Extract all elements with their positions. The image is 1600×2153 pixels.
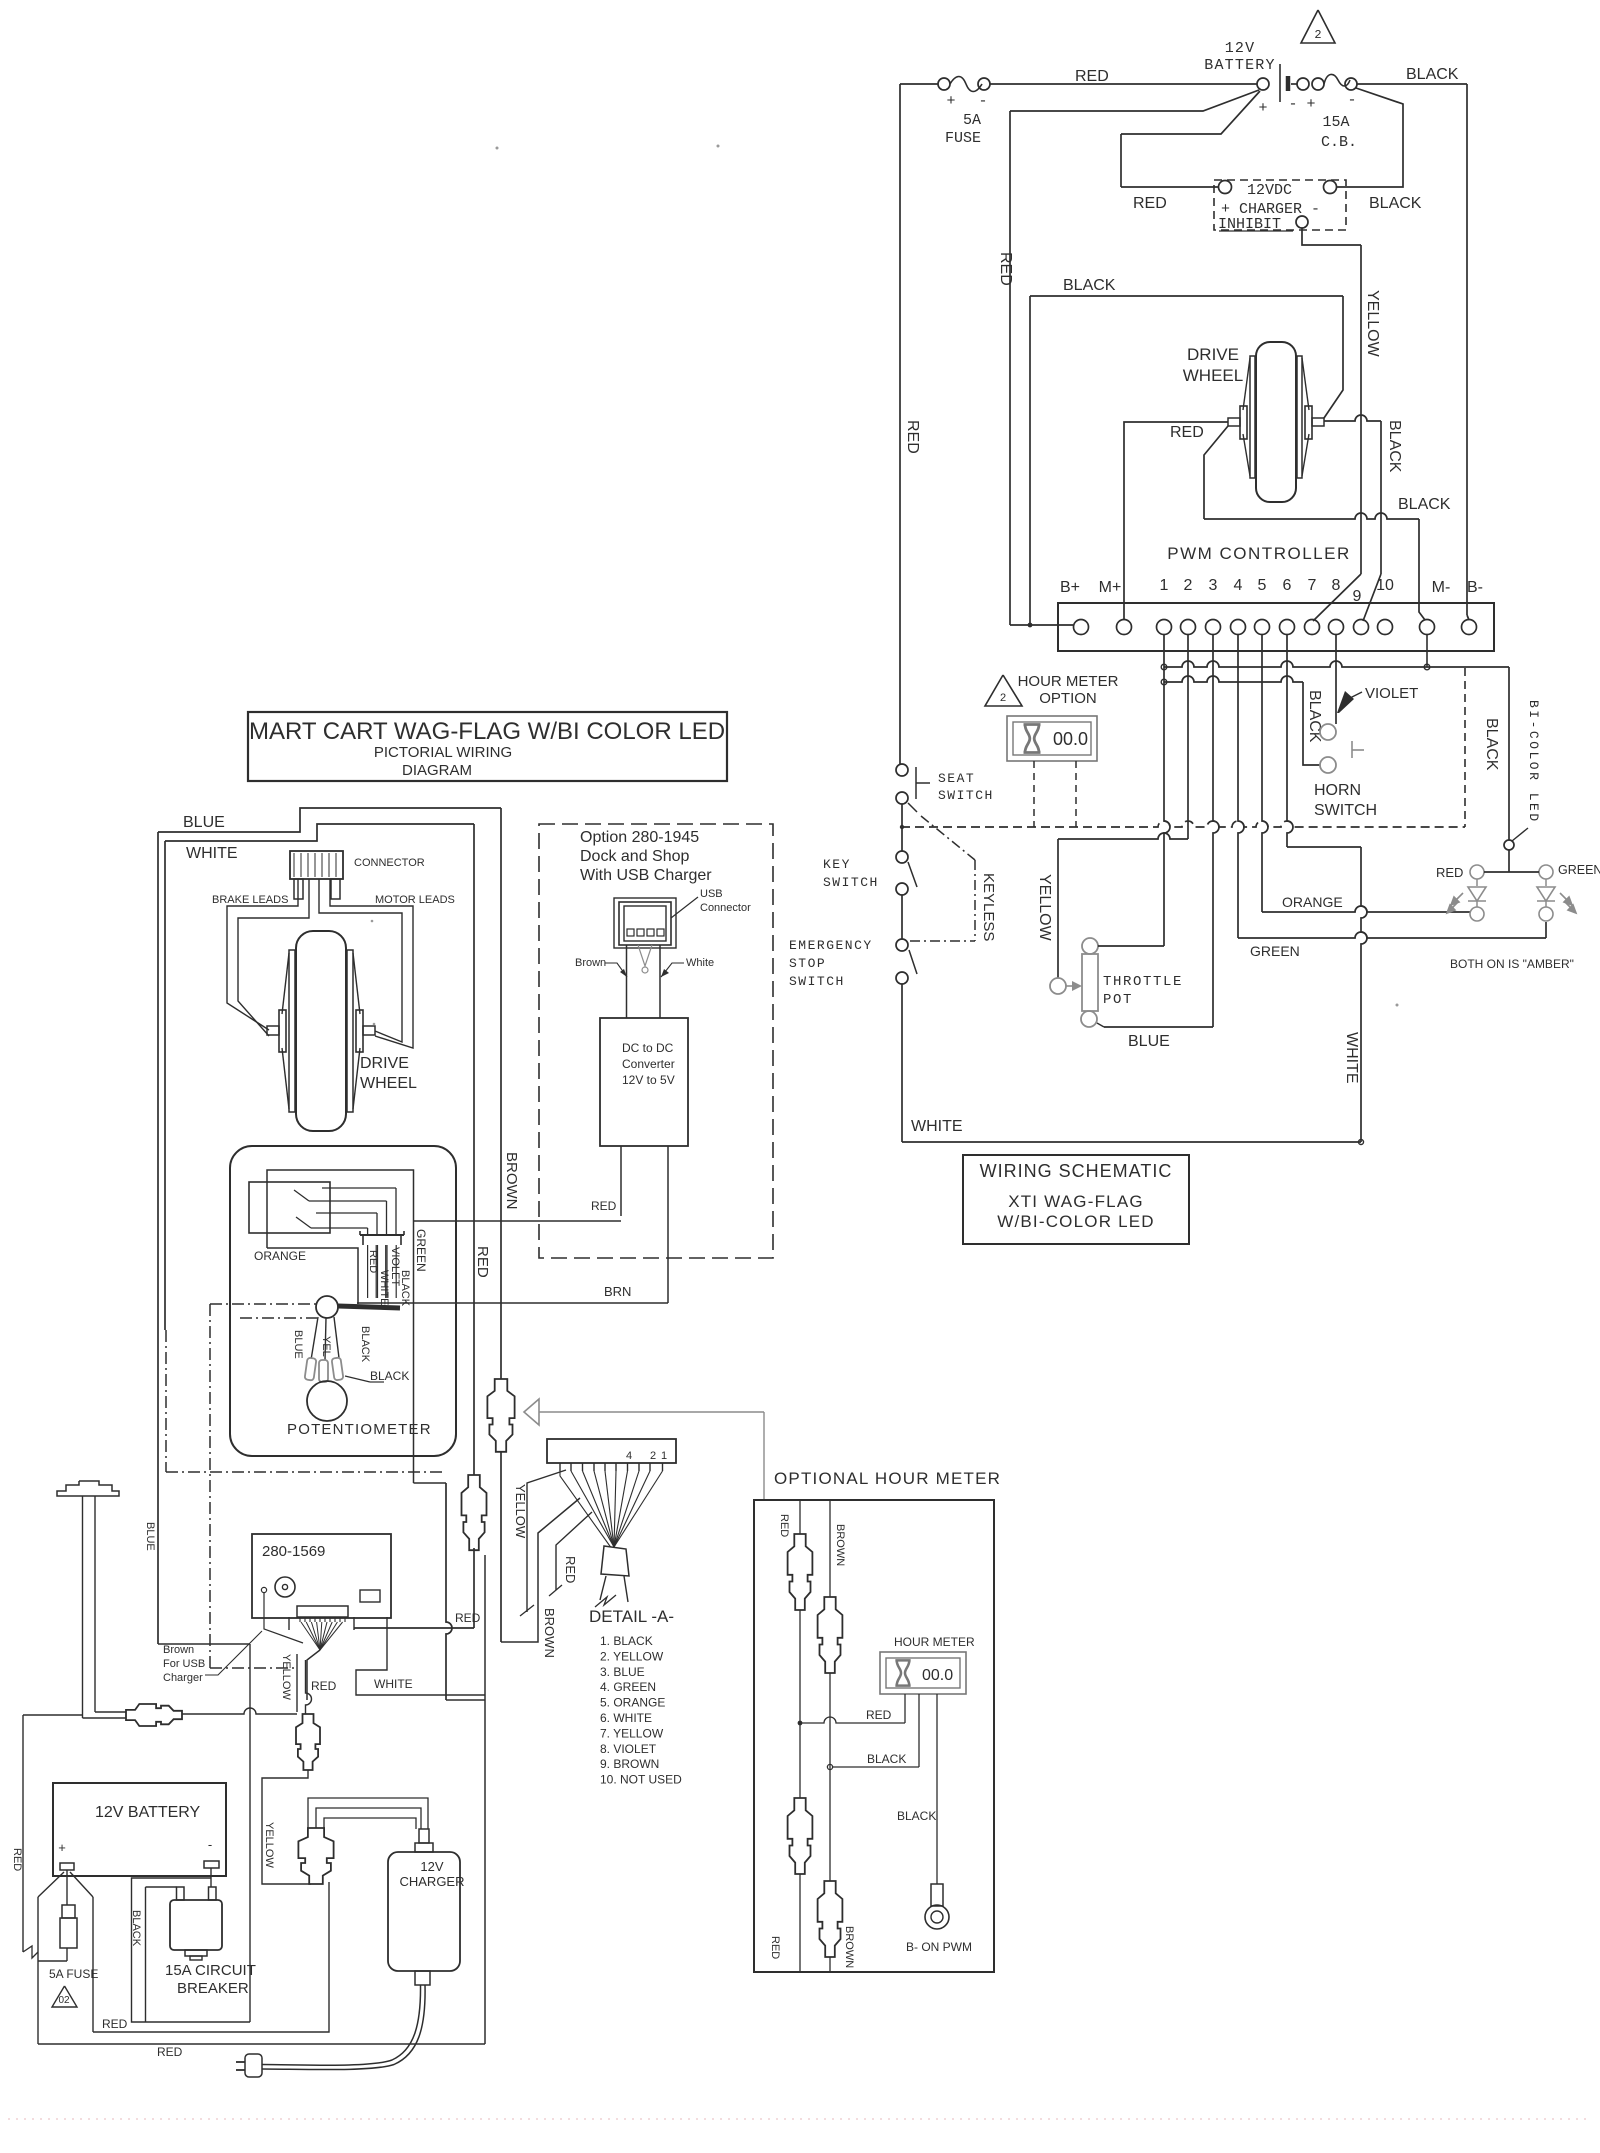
wire BLACK to LED pair — [1508, 850, 1510, 872]
charger + terminal circle — [1219, 181, 1232, 194]
PWM terminal B- — [1462, 620, 1477, 635]
wire BLUE left vertical — [157, 832, 159, 1644]
leader USB connector — [671, 897, 698, 918]
wire RED M+ to left axle — [1124, 422, 1228, 620]
svg-text:DC to DC: DC to DC — [622, 1041, 674, 1055]
wire BLUE pot lead — [311, 1317, 318, 1360]
svg-text:2: 2 — [1000, 693, 1007, 705]
wire jog to B- terminal — [1467, 615, 1469, 620]
box 12V CHARGER — [388, 1852, 460, 1971]
wire BLUE pot bottom to terminal 3 — [1104, 1026, 1213, 1028]
svg-text:HOUR METER: HOUR METER — [894, 1635, 975, 1649]
wire left border down — [22, 1715, 24, 1952]
svg-text:RED: RED — [474, 1246, 491, 1278]
junction M- bus — [1424, 664, 1430, 670]
svg-text:6. WHITE: 6. WHITE — [600, 1711, 652, 1725]
battery - terminal — [204, 1861, 219, 1868]
svg-text:SWITCH: SWITCH — [1314, 802, 1377, 819]
svg-text:BLACK: BLACK — [1483, 718, 1500, 771]
wire YELLOW wiper to terminal 2 — [1058, 833, 1188, 839]
wire BLACK meter lead — [918, 1694, 920, 1767]
key switch lever — [908, 862, 917, 887]
breaker right post — [209, 1887, 217, 1900]
svg-text:BLACK: BLACK — [1386, 420, 1403, 473]
svg-text:CONNECTOR: CONNECTOR — [354, 857, 425, 869]
svg-text:7. YELLOW: 7. YELLOW — [600, 1726, 664, 1740]
seat switch lever — [908, 803, 917, 812]
box control board 280-1569 — [252, 1534, 391, 1618]
svg-text:BLACK: BLACK — [1369, 195, 1422, 212]
board fan wire — [320, 1622, 327, 1650]
PWM terminal 8 — [1329, 620, 1344, 635]
drive wheel M1 tire — [1256, 342, 1296, 502]
pictorial wheel left cone upper — [282, 953, 289, 1014]
wire horn to left border — [23, 1714, 83, 1716]
svg-text:BRN: BRN — [604, 1284, 631, 1299]
wire charger feed inner — [324, 1818, 416, 1829]
dashed keyless link — [921, 816, 975, 860]
wheel right cone lower — [1302, 434, 1309, 476]
ring terminal barrel — [931, 1884, 943, 1906]
svg-text:XTI WAG-FLAG: XTI WAG-FLAG — [1008, 1192, 1144, 1211]
svg-text:WHEEL: WHEEL — [1183, 366, 1243, 385]
svg-text:+: + — [946, 93, 955, 110]
pot harness crimp header — [360, 1234, 404, 1236]
AC plug body — [245, 2054, 262, 2077]
wire charger feed mid — [316, 1808, 421, 1829]
wire RED battery+ tap 1 — [1010, 90, 1259, 111]
pot harness wire pair — [386, 1245, 388, 1298]
board fan wire — [320, 1622, 343, 1650]
wire bundle down — [307, 1650, 320, 1700]
svg-text:WHEEL: WHEEL — [360, 1075, 417, 1092]
svg-text:BLACK: BLACK — [867, 1752, 906, 1766]
detail-A connector housing — [547, 1439, 676, 1463]
svg-text:2. YELLOW: 2. YELLOW — [600, 1649, 664, 1663]
wire BLACK bus2 to horn — [1164, 676, 1303, 682]
svg-text:BLACK: BLACK — [1063, 277, 1116, 294]
detail-A pin — [662, 1463, 664, 1471]
wire BLACK down to M- — [1419, 519, 1425, 620]
svg-text:2: 2 — [650, 1450, 656, 1462]
detail-A fan wire — [614, 1471, 650, 1547]
svg-text:RED: RED — [455, 1611, 481, 1625]
wire ORANGE run to red LED — [1262, 906, 1470, 912]
USB connector inner — [624, 906, 666, 941]
svg-text:BLUE: BLUE — [1128, 1033, 1170, 1050]
svg-text:HORN: HORN — [1314, 782, 1361, 799]
wire BLACK tap to meter — [833, 1766, 919, 1768]
throttle pot top terminal — [1082, 938, 1098, 954]
wire BLACK meter ground lead — [936, 1694, 938, 1884]
horn switch S4 bottom contact — [1320, 757, 1336, 773]
wire battery+ diag right — [70, 1872, 93, 1897]
leader BI-COLOR LED — [1512, 828, 1528, 841]
wheel right axle pin — [1312, 418, 1324, 426]
PWM terminal 10 — [1378, 620, 1393, 635]
svg-text:RED: RED — [367, 1250, 379, 1273]
breaker left post — [177, 1887, 185, 1900]
board speaker outer — [275, 1577, 295, 1597]
svg-text:00.0: 00.0 — [922, 1667, 953, 1684]
PWM terminal 9 — [1354, 620, 1369, 635]
box optional hour meter panel — [754, 1500, 994, 1972]
wire battery+ to fuse — [66, 1870, 68, 1905]
drive wheel pictorial tire — [296, 931, 346, 1131]
svg-text:KEY: KEY — [823, 857, 851, 872]
box pictorial title — [248, 712, 727, 781]
pot harness wire pair — [367, 1245, 369, 1298]
red LED D1 cathode terminal — [1470, 907, 1484, 921]
wire RED detail stub — [556, 1512, 592, 1590]
junction dash option — [900, 825, 904, 829]
wire WHITE jog — [1287, 846, 1361, 848]
wire RED left border down to seat switch — [899, 84, 901, 764]
wire RED to charger terminal — [1121, 186, 1218, 188]
inline connector red wire — [462, 1475, 487, 1550]
svg-text:BREAKER: BREAKER — [177, 1980, 249, 1997]
wire RED tap to meter — [800, 1717, 905, 1723]
detail-A fan wire — [571, 1471, 614, 1547]
svg-text:8. VIOLET: 8. VIOLET — [600, 1742, 657, 1756]
wire RED battery+ tap 2 — [1121, 91, 1260, 134]
ring terminal eye outer — [925, 1905, 949, 1929]
stray scan dot 1 — [496, 147, 499, 150]
wire RED bottom run — [38, 2043, 485, 2045]
detail-A pin — [604, 1463, 606, 1471]
detail-A fan wire — [614, 1471, 616, 1547]
note triangle 02 — [52, 1986, 77, 2007]
dashed hour meter lead 2 — [1075, 761, 1077, 827]
seat switch plunger — [915, 767, 917, 799]
green LED D2 anode terminal — [1539, 865, 1553, 879]
key switch S2 bottom contact — [896, 883, 908, 895]
svg-text:HOUR METER: HOUR METER — [1018, 673, 1119, 690]
wire GREEN run to LED — [1238, 932, 1546, 938]
svg-text:OPTION: OPTION — [1039, 690, 1097, 707]
PWM terminal 1 — [1157, 620, 1172, 635]
wire breaker left down — [145, 1887, 147, 2022]
wire WHITE long vertical — [1361, 847, 1367, 1142]
key switch S2 top contact — [896, 851, 908, 863]
board fan wire — [320, 1622, 332, 1650]
underline INHIBIT — [1219, 230, 1293, 232]
svg-text:C.B.: C.B. — [1321, 134, 1357, 151]
svg-text:BLACK: BLACK — [399, 1270, 411, 1307]
detail-A pin — [627, 1463, 629, 1471]
svg-text:12V BATTERY: 12V BATTERY — [95, 1804, 201, 1821]
svg-text:PWM CONTROLLER: PWM CONTROLLER — [1167, 544, 1350, 563]
board bottom header — [297, 1606, 348, 1617]
switch wire 4 — [311, 1227, 368, 1229]
stray scan dot 2 — [717, 145, 720, 148]
wire key to e-stop — [901, 895, 903, 939]
svg-text:BLUE: BLUE — [292, 1330, 304, 1359]
svg-text:+: + — [58, 1840, 66, 1855]
breaker bottom tab — [185, 1950, 207, 1956]
potentiometer body — [307, 1381, 347, 1421]
pictorial wheel right axle pin — [363, 1026, 375, 1035]
inline connector red upper — [788, 1534, 813, 1610]
svg-text:ORANGE: ORANGE — [1282, 894, 1343, 910]
board fan wire — [317, 1622, 320, 1650]
junction B+ wires — [1028, 623, 1033, 628]
wire VIOLET terminal 8 to horn — [1335, 634, 1337, 724]
svg-text:BLACK: BLACK — [370, 1369, 409, 1383]
wire RED fuse to battery+ — [990, 83, 1257, 85]
inline connector brown wire — [487, 1379, 514, 1452]
yellow stub end tick — [520, 1605, 534, 1616]
svg-text:CHARGER: CHARGER — [399, 1874, 464, 1889]
svg-text:KEYLESS: KEYLESS — [980, 873, 997, 941]
wire GREEN loop in pot box — [267, 1170, 414, 1309]
wire white USB — [659, 945, 661, 1018]
svg-text:Option 280-1945: Option 280-1945 — [580, 829, 699, 846]
svg-text:B-: B- — [1467, 579, 1483, 596]
wire RED to yellow connector — [93, 1882, 329, 2032]
svg-text:DRIVE: DRIVE — [360, 1055, 409, 1072]
wire brown for USB — [264, 1593, 303, 1643]
svg-text:00.0: 00.0 — [1053, 729, 1088, 749]
connector J1 left leg — [294, 879, 303, 899]
wire BLACK vertical to term 9 — [1380, 421, 1382, 574]
wire battery+ diag left — [38, 1872, 64, 1897]
wire to B+ terminal — [1010, 624, 1073, 626]
svg-text:4. GREEN: 4. GREEN — [600, 1680, 656, 1694]
wire right border bottom section — [484, 1555, 486, 2044]
junction brown tap — [827, 1764, 832, 1769]
wire RED panel lower — [799, 1874, 801, 1972]
battery BT1 long plate — [1279, 64, 1281, 102]
svg-text:RED: RED — [904, 420, 921, 454]
svg-text:3: 3 — [1209, 577, 1218, 594]
svg-text:PICTORIAL WIRING: PICTORIAL WIRING — [374, 744, 512, 761]
dashed keyless vertical — [974, 860, 976, 941]
dash-dot vertical option — [209, 1304, 211, 1668]
PWM terminal M- — [1420, 620, 1435, 635]
seat switch S1 top contact — [896, 764, 908, 776]
wheel right rim — [1297, 356, 1302, 478]
hour meter HM2 face — [886, 1658, 960, 1688]
svg-text:-: - — [978, 93, 987, 110]
wire RED outer down — [37, 1897, 39, 2044]
switch block in pot box — [249, 1182, 330, 1233]
detail-A pin — [582, 1463, 584, 1471]
board pin right tick — [386, 1617, 388, 1630]
svg-text:With USB Charger: With USB Charger — [580, 867, 712, 884]
wire RED panel middle — [799, 1610, 801, 1798]
wire fuse bottom — [66, 1948, 68, 1961]
svg-text:WHITE: WHITE — [911, 1118, 963, 1135]
switch wire 2 — [309, 1200, 387, 1202]
wire RED to connector — [306, 1660, 312, 1714]
svg-text:280-1569: 280-1569 — [262, 1543, 325, 1560]
svg-text:RED: RED — [157, 2045, 183, 2059]
svg-text:VIOLET: VIOLET — [1365, 685, 1418, 702]
svg-text:DIAGRAM: DIAGRAM — [402, 762, 472, 779]
PWM terminal 5 — [1255, 620, 1270, 635]
svg-text:DETAIL -A-: DETAIL -A- — [589, 1607, 674, 1626]
15A CB left terminal — [1297, 78, 1309, 90]
svg-text:WHITE: WHITE — [374, 1677, 413, 1691]
board fan wire — [301, 1622, 320, 1650]
svg-text:SEAT: SEAT — [938, 771, 975, 786]
svg-text:WIRING SCHEMATIC: WIRING SCHEMATIC — [980, 1161, 1173, 1181]
pictorial wheel left bearing — [279, 1010, 286, 1052]
wire WHITE connector loop top — [165, 824, 474, 841]
wire RED down to charger + — [1120, 134, 1122, 187]
wire bundle from grommet — [338, 1306, 400, 1308]
dashed keyless to e-stop — [910, 940, 975, 942]
wire YELLOW terminal 2 down — [1187, 634, 1189, 839]
box WIRING SCHEMATIC title — [963, 1155, 1189, 1244]
svg-text:10: 10 — [1376, 577, 1394, 594]
junction red tap — [798, 1721, 803, 1726]
svg-text:RED: RED — [1170, 424, 1204, 441]
wire BRN dcdc out — [667, 1146, 669, 1303]
svg-text:12V: 12V — [1225, 40, 1256, 57]
svg-text:2: 2 — [1184, 577, 1193, 594]
junction t1 bus2 — [1161, 679, 1167, 685]
svg-text:RED: RED — [591, 1199, 617, 1213]
AC plug prong 2 — [236, 2069, 245, 2071]
wire BLUE bottom link — [158, 1643, 250, 1645]
board fan wire — [320, 1622, 337, 1650]
detail-A fan wire — [583, 1471, 615, 1547]
svg-text:BLACK: BLACK — [1398, 496, 1451, 513]
svg-text:RED: RED — [311, 1679, 337, 1693]
inline connector brown upper — [818, 1597, 843, 1673]
wire BROWN middle vertical — [500, 808, 502, 1379]
junction t1 bus1 — [1161, 664, 1167, 670]
breaker bottom tab 2 — [190, 1956, 202, 1960]
wire RED to pot box — [413, 1220, 621, 1222]
svg-text:White: White — [686, 957, 714, 969]
board fan wire — [306, 1622, 320, 1650]
svg-text:Brown: Brown — [575, 957, 606, 969]
dash-dot option horizontal — [166, 1471, 446, 1473]
wire RED to board pin — [354, 1627, 474, 1629]
wire RED lower vertical — [446, 1483, 452, 1700]
wire BLACK pot lead — [334, 1317, 339, 1358]
wire battery- to breaker — [210, 1868, 212, 1887]
svg-text:MOTOR LEADS: MOTOR LEADS — [375, 894, 455, 906]
svg-text:RED: RED — [769, 1936, 781, 1959]
wire BROWN panel middle — [829, 1673, 831, 1881]
USB connector outer — [619, 902, 671, 945]
wire RED battery+ down — [92, 1897, 94, 2032]
svg-text:BLACK: BLACK — [897, 1809, 936, 1823]
dash-dot to yellow wire — [210, 1667, 297, 1669]
wire RED down to B+ — [1009, 111, 1011, 625]
svg-text:YELLOW: YELLOW — [513, 1484, 528, 1539]
connector J1 right leg — [331, 879, 340, 899]
board speaker inner — [282, 1584, 287, 1589]
svg-text:12V to 5V: 12V to 5V — [622, 1073, 675, 1087]
wire YELLOW board — [296, 1654, 298, 1712]
leader detail-A to hour meter panel — [539, 1411, 764, 1413]
svg-text:M-: M- — [1432, 579, 1451, 596]
15A CB right terminal — [1345, 78, 1357, 90]
svg-text:5A FUSE: 5A FUSE — [49, 1967, 98, 1981]
wire RED below connector — [473, 1548, 475, 1628]
green LED D2 cathode terminal — [1539, 907, 1553, 921]
wheel right bearing plate — [1305, 406, 1312, 439]
wire BLACK bus to LED — [1427, 666, 1509, 668]
charger bottom pin — [415, 1971, 430, 1985]
svg-text:POT: POT — [1103, 992, 1133, 1008]
5A fuse F1 right terminal — [978, 78, 990, 90]
svg-text:Dock and Shop: Dock and Shop — [580, 848, 690, 865]
switch contact lower — [296, 1217, 311, 1228]
wire BLACK to horn switch — [1303, 682, 1320, 765]
wire WHITE left vertical — [164, 841, 166, 1330]
wire YELLOW diagonal to terminal 7 — [1313, 574, 1361, 621]
svg-text:B- ON PWM: B- ON PWM — [906, 1940, 972, 1954]
leader brown usb — [205, 1631, 262, 1675]
svg-text:RED: RED — [102, 2017, 128, 2031]
wire WHITE bottom run — [902, 1141, 1361, 1143]
horn lead 2 — [94, 1496, 96, 1712]
wire YELLOW from inhibit — [1302, 228, 1361, 245]
svg-text:WHITE: WHITE — [186, 845, 238, 862]
svg-text:BROWN: BROWN — [834, 1524, 846, 1566]
svg-text:SWITCH: SWITCH — [823, 875, 879, 890]
box 12VDC CHARGER INHIBIT — [1214, 180, 1346, 230]
wire motor lead 2 — [330, 879, 413, 1048]
svg-text:RED: RED — [1133, 195, 1167, 212]
box potentiometer assembly — [230, 1146, 456, 1456]
wire BRN long run — [357, 1302, 668, 1304]
board fan wire — [320, 1622, 322, 1650]
wire BLUE terminal 3 down — [1213, 634, 1219, 1027]
wheel left axle pin — [1228, 418, 1240, 426]
throttle pot R1 body — [1082, 954, 1098, 1011]
wire BLACK left axle down — [1204, 426, 1228, 519]
svg-text:Brown: Brown — [163, 1644, 194, 1656]
svg-text:ORANGE: ORANGE — [254, 1249, 306, 1263]
stray scan dot 4 — [373, 1023, 376, 1026]
wire BLUE board riser — [249, 1644, 251, 2022]
horn lead 1 — [82, 1496, 84, 1718]
board pin left tick — [288, 1617, 290, 1630]
wire horn to board — [182, 1708, 297, 1714]
throttle pot bottom terminal — [1081, 1011, 1097, 1027]
hour meter HM1 face — [1013, 722, 1091, 755]
svg-text:1: 1 — [661, 1450, 667, 1462]
inline connector brown lower — [818, 1881, 843, 1957]
switch contact upper — [294, 1190, 309, 1201]
svg-text:USB: USB — [700, 888, 723, 900]
svg-text:SWITCH: SWITCH — [938, 788, 994, 803]
svg-text:RED: RED — [1436, 865, 1463, 880]
wheel left cone lower — [1243, 434, 1250, 476]
detail-A fan wire — [594, 1471, 614, 1547]
wire BLACK pot top to terminal 1 — [1098, 945, 1164, 947]
dash-dot WHITE option below — [165, 1330, 167, 1472]
wire BLACK motor top — [1030, 295, 1343, 297]
wheel left cone upper — [1243, 358, 1250, 410]
svg-text:-: - — [208, 1837, 212, 1852]
svg-text:BLACK: BLACK — [359, 1326, 371, 1363]
board fan wire — [311, 1622, 320, 1650]
svg-text:Connector: Connector — [700, 902, 751, 914]
usb drain terminal — [642, 967, 648, 973]
svg-text:BLACK: BLACK — [1406, 66, 1459, 83]
leader white — [661, 963, 684, 977]
pictorial wheel left axle pin — [267, 1026, 279, 1035]
battery + terminal — [60, 1863, 74, 1870]
